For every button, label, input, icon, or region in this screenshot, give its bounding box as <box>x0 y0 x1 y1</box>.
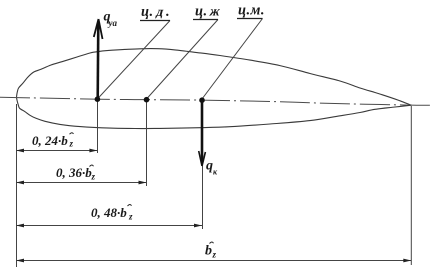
svg-text:z: z <box>91 172 96 182</box>
svg-text:.: . <box>166 4 170 20</box>
svg-text:z: z <box>212 250 217 260</box>
svg-text:ц.м.: ц.м. <box>238 3 265 19</box>
svg-text:ц.: ц. <box>195 4 208 20</box>
svg-text:z: z <box>69 139 74 149</box>
svg-text:д: д <box>155 4 166 19</box>
svg-text:уа: уа <box>108 18 118 28</box>
svg-text:z: z <box>128 212 133 222</box>
svg-text:q: q <box>206 159 213 174</box>
svg-text:ц.: ц. <box>141 4 154 20</box>
svg-text:ж: ж <box>208 4 222 19</box>
svg-text:b: b <box>205 244 212 259</box>
svg-text:0, 36·b: 0, 36·b <box>56 165 92 180</box>
svg-text:0, 48·b: 0, 48·b <box>91 205 127 220</box>
svg-text:к: к <box>213 168 218 177</box>
svg-text:0, 24·b: 0, 24·b <box>32 133 68 148</box>
